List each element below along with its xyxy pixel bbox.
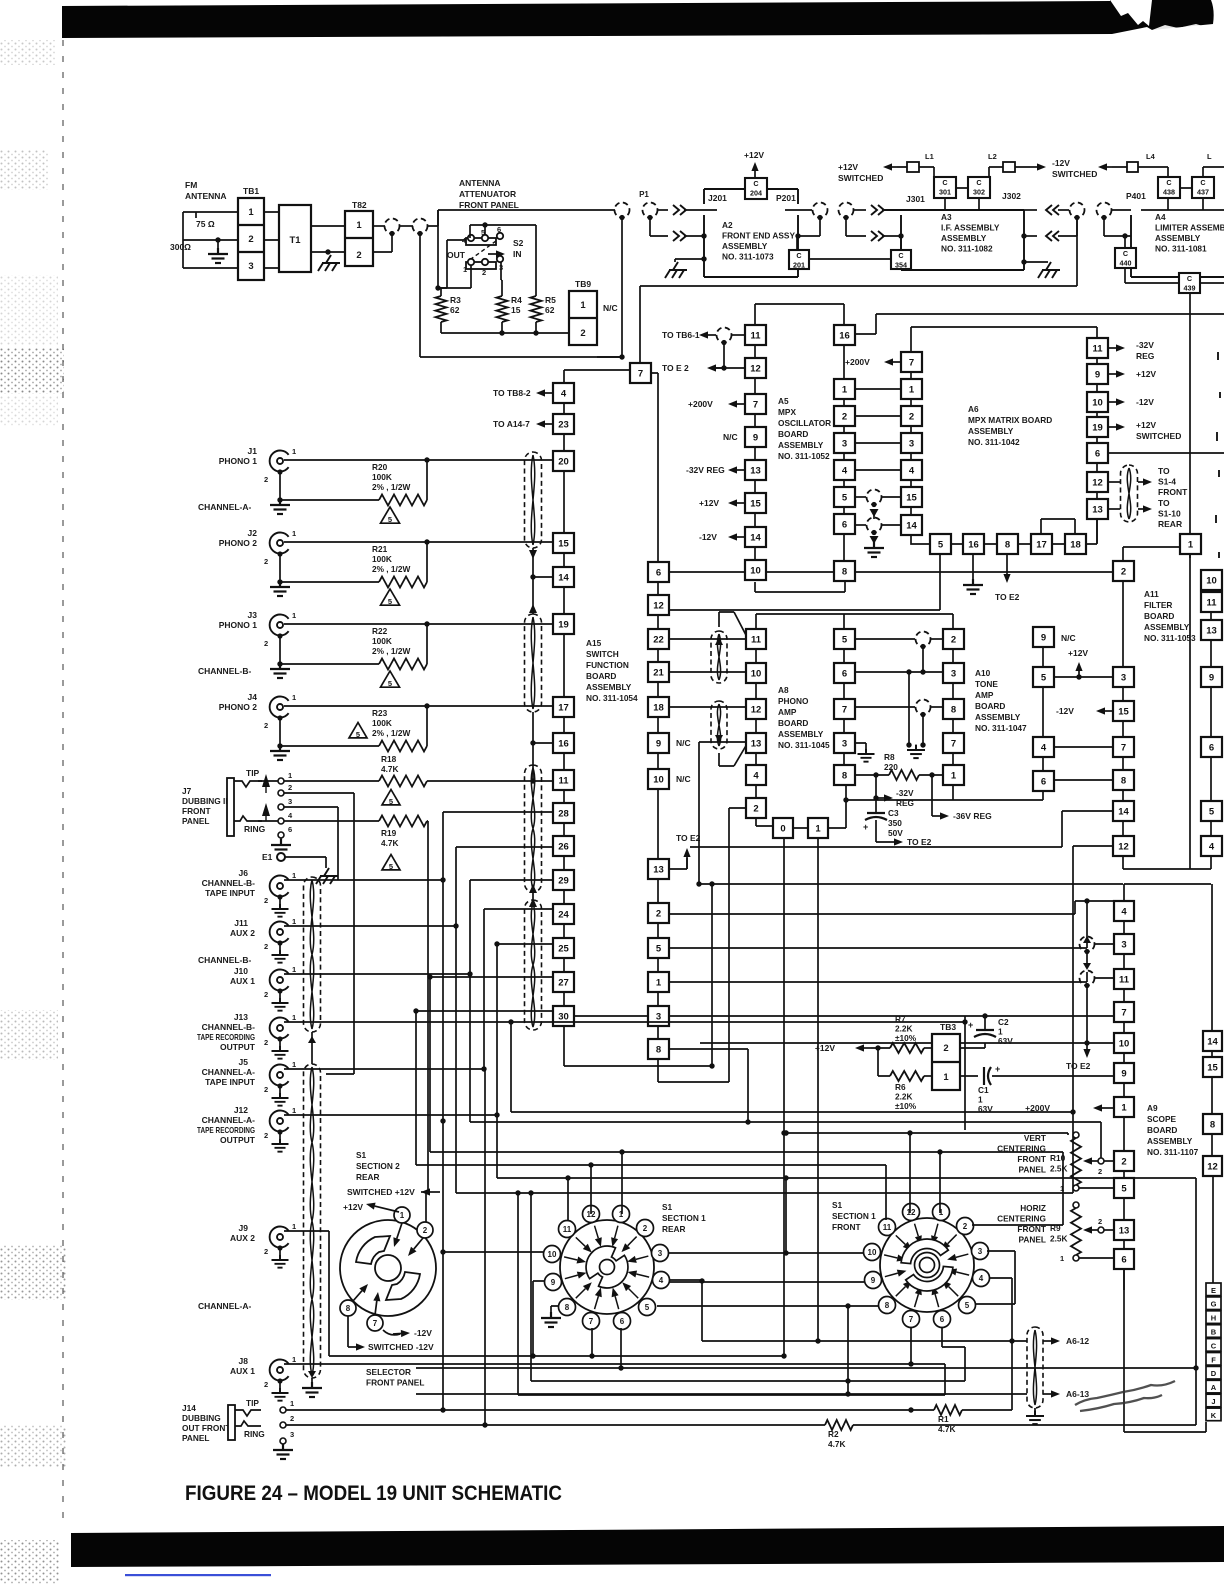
wire J7 pin6 ground bbox=[280, 838, 282, 843]
svg-text:11: 11 bbox=[563, 1225, 572, 1234]
wire bus vertical x430 bbox=[430, 977, 1063, 1152]
svg-text:C: C bbox=[1211, 1341, 1217, 1350]
svg-text:P1: P1 bbox=[639, 190, 649, 199]
wire L4 bbox=[1112, 167, 1168, 177]
wire A6 14-6 link bbox=[855, 524, 866, 526]
junction bbox=[619, 354, 624, 359]
svg-text:A6: A6 bbox=[968, 404, 979, 414]
svg-text:SWITCHED: SWITCHED bbox=[1052, 169, 1097, 179]
ground S1r bbox=[541, 1312, 561, 1327]
svg-text:437: 437 bbox=[1197, 187, 1209, 196]
shield pair bbox=[1121, 465, 1138, 522]
wire A10 top bracket bbox=[844, 614, 953, 629]
wire S1r pin11 up bbox=[567, 1178, 569, 1220]
wire bus vertical x470 bbox=[470, 974, 1101, 1122]
svg-text:MPX MATRIX BOARD: MPX MATRIX BOARD bbox=[968, 415, 1052, 425]
chevron bbox=[871, 205, 884, 215]
svg-text:RING: RING bbox=[244, 1429, 265, 1439]
resistor R7 bbox=[890, 1043, 924, 1053]
A6 pin2 4 bbox=[901, 460, 922, 480]
scan noise patch bbox=[0, 396, 58, 426]
S1|SECTION 1|REAR contact 1 bbox=[613, 1206, 630, 1223]
A8 pin 12 bbox=[746, 699, 766, 719]
svg-text:TO E2: TO E2 bbox=[676, 833, 701, 843]
svg-text:FRONT END ASSY: FRONT END ASSY bbox=[722, 231, 795, 241]
svg-text:14: 14 bbox=[906, 520, 917, 531]
S1|SECTION 1|REAR rotor bbox=[586, 1246, 628, 1288]
A8 mid pin 6 bbox=[834, 663, 855, 683]
A11 right pin 6 bbox=[1201, 737, 1222, 757]
A6 pin 6 bbox=[834, 514, 855, 534]
svg-text:2: 2 bbox=[264, 475, 268, 484]
wire J11 ground bbox=[279, 943, 281, 954]
svg-text:7: 7 bbox=[638, 368, 643, 379]
arrow -12V bbox=[383, 1330, 400, 1335]
svg-text:PHONO 2: PHONO 2 bbox=[219, 702, 258, 712]
ground shield bbox=[302, 1382, 322, 1397]
coax connector bbox=[839, 203, 854, 218]
arrow TO A14-7 bbox=[545, 423, 553, 425]
svg-text:13: 13 bbox=[1206, 625, 1217, 636]
svg-text:15: 15 bbox=[750, 498, 761, 509]
svg-text:1: 1 bbox=[292, 1222, 296, 1231]
scan noise patch bbox=[0, 348, 64, 394]
svg-text:301: 301 bbox=[939, 187, 951, 196]
svg-text:1: 1 bbox=[1121, 1102, 1127, 1113]
svg-text:DUBBING IN: DUBBING IN bbox=[182, 796, 231, 806]
wire left riser from coax bbox=[437, 210, 439, 288]
svg-text:2: 2 bbox=[264, 639, 268, 648]
A9 pin 13 bbox=[1114, 1220, 1134, 1240]
wire L2 bbox=[989, 167, 1030, 177]
wire A6 right col bbox=[1096, 358, 1098, 543]
A11 pin 2 bbox=[1113, 561, 1134, 581]
connector J9 bbox=[270, 1227, 289, 1248]
svg-text:2% , 1/2W: 2% , 1/2W bbox=[372, 564, 410, 574]
S1|SECTION 1|FRONT contact 6 bbox=[934, 1311, 951, 1328]
wire to box7 bbox=[564, 370, 630, 383]
S1|SECTION 1|FRONT contact 3 bbox=[972, 1243, 989, 1260]
J7 pin circles bbox=[278, 778, 284, 784]
svg-text:10: 10 bbox=[1119, 1038, 1130, 1049]
A11 pin 7 bbox=[1113, 737, 1134, 757]
svg-text:SWITCH: SWITCH bbox=[586, 649, 619, 659]
inductor L1 bbox=[907, 162, 919, 172]
wire A6 col1 bbox=[843, 345, 845, 561]
A11 right pin 4 bbox=[1201, 836, 1222, 856]
coax connector bbox=[916, 632, 931, 647]
svg-text:R23: R23 bbox=[372, 708, 388, 718]
wire A15-21 to A8-10 bbox=[670, 671, 746, 673]
svg-text:9: 9 bbox=[1041, 632, 1046, 643]
svg-text:L: L bbox=[1207, 152, 1212, 161]
A6 pin 4 bbox=[834, 460, 855, 480]
wire A15 left col links bbox=[563, 403, 565, 1006]
wire J14 pin3 ground bbox=[282, 1444, 284, 1448]
A9 pin 9 bbox=[1114, 1063, 1134, 1083]
A9 right pin 15 bbox=[1203, 1057, 1222, 1077]
wire bus 1356 bbox=[533, 1355, 784, 1357]
svg-text:J9: J9 bbox=[239, 1223, 249, 1233]
svg-text:11: 11 bbox=[1206, 597, 1217, 608]
A8 pin 13 bbox=[746, 733, 766, 753]
wire J4 signal bbox=[284, 705, 553, 707]
wire A8 left col bbox=[756, 649, 773, 826]
coax connector bbox=[867, 518, 882, 533]
svg-text:5: 5 bbox=[656, 943, 662, 954]
resistor R21 bbox=[280, 542, 427, 582]
svg-text:201: 201 bbox=[793, 260, 805, 269]
S1|SECTION 1|FRONT contact 7 bbox=[903, 1311, 920, 1328]
wire bus vertical x443 bbox=[442, 880, 444, 1410]
svg-text:13: 13 bbox=[750, 465, 761, 476]
shield pair A6 bbox=[1027, 1327, 1043, 1408]
svg-text:6: 6 bbox=[1095, 448, 1100, 459]
wire TB3-2 to C2 bbox=[960, 1043, 985, 1048]
svg-text:CENTERING: CENTERING bbox=[997, 1144, 1046, 1154]
S1|SECTION 1|REAR contact 12 bbox=[583, 1206, 600, 1223]
A11 pin 15 bbox=[1113, 701, 1134, 721]
svg-text:NO. 311-1053: NO. 311-1053 bbox=[1144, 633, 1196, 643]
A9 right pin 12 bbox=[1203, 1156, 1222, 1176]
wire A15-27 entry bbox=[428, 976, 553, 978]
connector J8 bbox=[270, 1360, 289, 1381]
arrow TO E2 up bbox=[670, 858, 687, 869]
svg-text:2: 2 bbox=[482, 268, 486, 277]
svg-text:FRONT: FRONT bbox=[1158, 487, 1188, 497]
A15 right pin 21 bbox=[648, 662, 669, 682]
wire L1 bbox=[897, 167, 934, 177]
blue mark bottom bbox=[125, 1574, 271, 1576]
svg-text:C: C bbox=[1166, 178, 1171, 187]
symbol note 5 bbox=[349, 723, 367, 740]
svg-text:BOARD: BOARD bbox=[778, 718, 808, 728]
S1|SECTION 1|FRONT contact 8 bbox=[879, 1297, 896, 1314]
svg-text:+200V: +200V bbox=[688, 399, 713, 409]
svg-text:5: 5 bbox=[389, 797, 393, 806]
svg-text:MPX: MPX bbox=[778, 407, 796, 417]
A11 right pin 5 bbox=[1201, 801, 1222, 821]
A6 pin 16 bbox=[834, 325, 855, 345]
svg-text:1: 1 bbox=[1060, 1254, 1064, 1263]
svg-text:15: 15 bbox=[511, 305, 521, 315]
shielded cable J3-J4 bbox=[525, 614, 542, 712]
A15 right pin 2 bbox=[648, 903, 669, 923]
wire C201 to C354 bbox=[809, 258, 891, 260]
wire long return y286 bbox=[640, 218, 1077, 363]
A6 pin2 1 bbox=[901, 379, 922, 399]
svg-text:6: 6 bbox=[288, 825, 292, 834]
svg-text:-12V: -12V bbox=[699, 532, 717, 542]
svg-text:FRONT: FRONT bbox=[832, 1222, 861, 1232]
svg-text:17: 17 bbox=[1036, 539, 1047, 550]
svg-text:3: 3 bbox=[658, 1249, 663, 1258]
svg-text:J302: J302 bbox=[1002, 191, 1021, 201]
A9 pin 11 bbox=[1114, 969, 1134, 989]
ground J4 bbox=[270, 745, 290, 760]
arrow -32V REG bbox=[875, 775, 877, 798]
svg-text:2: 2 bbox=[356, 250, 361, 261]
svg-text:ANTENNA: ANTENNA bbox=[459, 178, 501, 188]
svg-text:13: 13 bbox=[1119, 1225, 1130, 1236]
svg-text:4: 4 bbox=[753, 770, 759, 781]
A15 pin 25 bbox=[553, 938, 574, 958]
svg-text:SCOPE: SCOPE bbox=[1147, 1114, 1177, 1124]
wire J7 pin2 right down bbox=[284, 793, 354, 1074]
svg-text:2: 2 bbox=[943, 1043, 948, 1054]
arrow +12V SWITCHED bbox=[1108, 426, 1116, 428]
svg-text:TIP: TIP bbox=[246, 768, 260, 778]
svg-text:9: 9 bbox=[871, 1276, 876, 1285]
svg-text:4: 4 bbox=[909, 465, 915, 476]
svg-text:4: 4 bbox=[659, 1276, 664, 1285]
svg-text:A15: A15 bbox=[586, 638, 602, 648]
resistor R1 bbox=[934, 1405, 962, 1415]
svg-text:+: + bbox=[863, 822, 868, 832]
svg-text:C: C bbox=[1123, 249, 1128, 258]
svg-text:A10: A10 bbox=[975, 668, 991, 678]
wire J2 pin2 ground bbox=[279, 555, 281, 583]
svg-text:-12V: -12V bbox=[1052, 158, 1070, 168]
svg-text:302: 302 bbox=[973, 187, 985, 196]
A15 pin 14 bbox=[553, 567, 574, 587]
svg-text:TO A14-7: TO A14-7 bbox=[493, 419, 530, 429]
wire A3 to coax bbox=[1024, 209, 1037, 211]
wire coax shield drop bbox=[798, 218, 866, 236]
svg-text:8: 8 bbox=[885, 1301, 890, 1310]
wire A8-6 row bbox=[855, 671, 943, 673]
svg-text:2.5K: 2.5K bbox=[1050, 1164, 1068, 1174]
wire to pin16 bbox=[530, 740, 535, 745]
coax connector bbox=[916, 700, 931, 715]
svg-text:5: 5 bbox=[1041, 672, 1047, 683]
wire A15-2 bus bbox=[670, 901, 1114, 914]
A8 mid pin 7 bbox=[834, 699, 855, 719]
svg-text:4.7K: 4.7K bbox=[828, 1439, 846, 1449]
svg-text:A11: A11 bbox=[1144, 589, 1159, 599]
svg-text:1: 1 bbox=[292, 693, 296, 702]
wire A5 column bbox=[754, 345, 756, 560]
wire A9 right col bbox=[1212, 884, 1213, 1283]
wire 30 to 3 link bbox=[575, 1015, 648, 1017]
svg-text:204: 204 bbox=[750, 188, 762, 197]
A9 right pin 14 bbox=[1203, 1031, 1222, 1051]
wire R9-1 to A9-6 bbox=[1079, 1257, 1114, 1259]
S1|SECTION 1|FRONT contact 4 bbox=[973, 1270, 990, 1287]
wire R19 right then down bbox=[427, 821, 428, 1193]
svg-text:7: 7 bbox=[909, 1315, 914, 1324]
svg-text:9: 9 bbox=[656, 738, 661, 749]
scribble marks bbox=[1075, 1381, 1175, 1411]
coax connector bbox=[1070, 203, 1085, 218]
wire P1 shield down bbox=[597, 218, 622, 357]
svg-text:R5: R5 bbox=[545, 295, 556, 305]
ground A3 right bbox=[1038, 262, 1060, 278]
arrow TO TB8-2 bbox=[545, 392, 553, 394]
ground J11 bbox=[272, 950, 289, 963]
A10 right pin 6 bbox=[1033, 771, 1054, 791]
A9 right pin 8 bbox=[1203, 1114, 1222, 1134]
svg-text:R8: R8 bbox=[884, 752, 895, 762]
svg-text:2: 2 bbox=[656, 908, 661, 919]
shield junction arrow bbox=[529, 550, 537, 559]
symbol note 5 bbox=[382, 790, 400, 807]
S1|SECTION 1|FRONT contact 11 bbox=[879, 1219, 896, 1236]
svg-text:3: 3 bbox=[909, 438, 914, 449]
svg-text:6: 6 bbox=[620, 1317, 625, 1326]
scan noise patch bbox=[0, 1540, 60, 1584]
wire A9 left vertical bbox=[1086, 901, 1088, 936]
coax connector P1b bbox=[643, 203, 658, 218]
wire bbox=[658, 209, 668, 211]
svg-text:6: 6 bbox=[497, 225, 501, 234]
A5 pin 10 bbox=[745, 560, 766, 580]
svg-text:C: C bbox=[942, 178, 947, 187]
connector J10 bbox=[270, 970, 289, 991]
ground A6 bottom bbox=[963, 579, 983, 594]
wire bbox=[1112, 209, 1131, 211]
svg-text:S1: S1 bbox=[832, 1200, 843, 1210]
svg-text:7: 7 bbox=[951, 738, 956, 749]
svg-text:8: 8 bbox=[656, 1044, 661, 1055]
A5 pin 12 bbox=[745, 358, 766, 378]
svg-text:5: 5 bbox=[938, 539, 944, 550]
svg-text:10: 10 bbox=[548, 1250, 557, 1259]
wire S1f pin1 up bbox=[939, 1152, 941, 1213]
wire attenuator top run to P1 bbox=[428, 210, 615, 226]
svg-text:+12V: +12V bbox=[815, 1043, 835, 1053]
wire A9-10 entry bbox=[700, 1042, 1114, 1044]
svg-text:A9: A9 bbox=[1147, 1103, 1158, 1113]
svg-text:8: 8 bbox=[842, 770, 847, 781]
svg-text:J13: J13 bbox=[234, 1012, 248, 1022]
svg-text:4.7K: 4.7K bbox=[381, 838, 399, 848]
wire bus 1178 right bbox=[783, 1130, 788, 1135]
svg-text:J201: J201 bbox=[708, 193, 727, 203]
svg-text:16: 16 bbox=[968, 539, 979, 550]
svg-text:1: 1 bbox=[292, 1060, 296, 1069]
wire J7 pin3 right down bbox=[284, 807, 338, 880]
symbol note 5 bbox=[382, 855, 400, 872]
svg-text:R3: R3 bbox=[450, 295, 461, 305]
svg-text:1: 1 bbox=[290, 1399, 294, 1408]
A11 right pin 13 bbox=[1201, 620, 1222, 640]
wire A15-30 entry bbox=[414, 1010, 553, 1012]
connector J12 bbox=[270, 1111, 289, 1132]
A15 pin 4 bbox=[553, 383, 574, 403]
arrow +12V bbox=[737, 502, 745, 504]
svg-text:10: 10 bbox=[868, 1248, 877, 1257]
svg-text:FM: FM bbox=[185, 180, 197, 190]
A9 pin 5 bbox=[1114, 1178, 1134, 1198]
svg-text:TIP: TIP bbox=[246, 1398, 259, 1408]
wire R6 branch bbox=[878, 1048, 890, 1076]
svg-text:75 Ω: 75 Ω bbox=[196, 219, 215, 229]
capacitor C437 bbox=[1192, 177, 1214, 198]
A9 pin 6 bbox=[1114, 1249, 1134, 1269]
svg-text:CHANNEL-A-: CHANNEL-A- bbox=[198, 502, 252, 512]
svg-text:-12V: -12V bbox=[1056, 706, 1074, 716]
wire TO E2 row bbox=[711, 343, 745, 368]
A6 pin2 3 bbox=[901, 433, 922, 453]
arrow TO E2 bbox=[890, 841, 894, 843]
shield junction arrow bbox=[529, 604, 537, 613]
svg-text:C3: C3 bbox=[888, 808, 899, 818]
wire A15 right col links bbox=[657, 582, 659, 1039]
svg-text:1: 1 bbox=[463, 265, 467, 274]
svg-text:10: 10 bbox=[751, 668, 762, 679]
svg-text:7: 7 bbox=[373, 1319, 378, 1328]
wire A15-3 bus bbox=[670, 1015, 1114, 1017]
assembly A2 outline bbox=[704, 189, 798, 277]
svg-text:SWITCHED: SWITCHED bbox=[1136, 431, 1181, 441]
svg-text:E: E bbox=[1211, 1286, 1216, 1295]
svg-text:2: 2 bbox=[753, 803, 758, 814]
power +12V SWITCHED arrow bbox=[892, 166, 897, 168]
svg-text:ASSEMBLY: ASSEMBLY bbox=[1144, 622, 1190, 632]
svg-text:FRONT: FRONT bbox=[182, 806, 211, 816]
svg-text:11: 11 bbox=[1092, 343, 1103, 354]
wire A6-13 line bbox=[416, 1393, 1027, 1395]
A5 pin 15 bbox=[745, 493, 766, 513]
svg-text:C: C bbox=[753, 179, 758, 188]
svg-text:7: 7 bbox=[1121, 1007, 1126, 1018]
A10 pin 2 bbox=[943, 629, 964, 649]
wire C439 right bbox=[1200, 282, 1224, 284]
svg-text:5: 5 bbox=[1209, 806, 1215, 817]
svg-text:OSCILLATOR: OSCILLATOR bbox=[778, 418, 831, 428]
svg-text:NO. 311-1042: NO. 311-1042 bbox=[968, 437, 1020, 447]
svg-text:2% , 1/2W: 2% , 1/2W bbox=[372, 646, 410, 656]
svg-text:OUTPUT: OUTPUT bbox=[220, 1135, 256, 1145]
wire bbox=[732, 334, 745, 336]
connector J1 bbox=[270, 451, 289, 472]
svg-text:TO E 2: TO E 2 bbox=[662, 363, 689, 373]
A15 pin 27 bbox=[553, 972, 574, 992]
svg-text:4: 4 bbox=[1121, 906, 1127, 917]
svg-text:B: B bbox=[1211, 1328, 1217, 1337]
wire J9 signal bbox=[284, 1231, 533, 1356]
svg-text:BOARD: BOARD bbox=[586, 671, 616, 681]
svg-text:ASSEMBLY: ASSEMBLY bbox=[1147, 1136, 1193, 1146]
svg-text:IN: IN bbox=[513, 249, 522, 259]
svg-text:29: 29 bbox=[558, 875, 569, 886]
scan noise patch bbox=[0, 275, 58, 345]
A9 pin 2 bbox=[1114, 1151, 1134, 1171]
shield flag upper bbox=[719, 612, 747, 637]
svg-text:TO: TO bbox=[1158, 466, 1170, 476]
A6 pin2 2 bbox=[901, 406, 922, 426]
wire R8 to A10-1 bbox=[919, 774, 943, 776]
resistor R3 bbox=[436, 296, 447, 322]
svg-text:CHANNEL-B-: CHANNEL-B- bbox=[202, 878, 256, 888]
A11 pin 1 bbox=[1180, 534, 1201, 554]
wire J7 pin1 to R18 bbox=[284, 780, 379, 782]
wire J11 signal bbox=[284, 847, 553, 926]
svg-text:1: 1 bbox=[292, 1106, 296, 1115]
wire R6 to TB3-1 bbox=[924, 1075, 932, 1077]
resistor R22 bbox=[280, 624, 427, 664]
coax connector bbox=[385, 219, 400, 234]
wire box30 bottom bbox=[564, 884, 712, 1066]
wire A15-25 entry bbox=[494, 941, 499, 946]
svg-text:8: 8 bbox=[1005, 539, 1010, 550]
wire J12 ground bbox=[279, 1132, 281, 1143]
wire J4 pin2 ground bbox=[279, 719, 281, 747]
S1|SECTION 1|REAR contact 9 bbox=[545, 1274, 562, 1291]
wire A2 lower input bbox=[650, 218, 668, 236]
svg-text:5: 5 bbox=[388, 597, 392, 606]
